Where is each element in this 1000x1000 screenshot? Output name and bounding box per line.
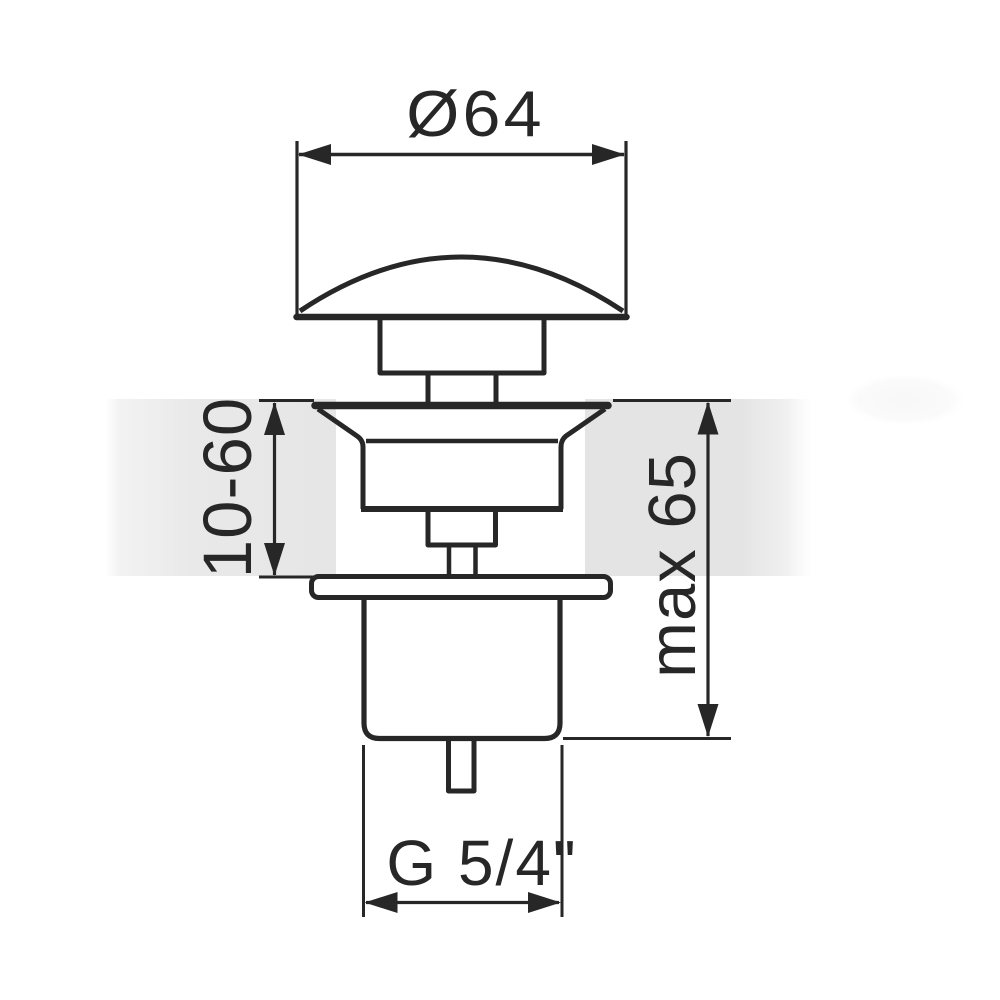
- arrowhead G 5/4 right: [528, 892, 561, 913]
- extension line right of Ø64: [624, 141, 627, 318]
- upper neck right side: [494, 373, 499, 404]
- 10-60 dimension line: [273, 403, 276, 575]
- upper neck left side: [426, 373, 431, 404]
- flange funnel left side: [318, 409, 363, 509]
- cap dome bottom bar: [297, 314, 627, 321]
- G 5/4 dimension line: [366, 901, 559, 904]
- stem right line: [473, 545, 478, 577]
- nut body: [364, 598, 560, 739]
- 10-60 bottom extension line: [259, 576, 313, 579]
- arrowhead G 5/4 left: [365, 892, 398, 913]
- washer plate: [312, 577, 611, 598]
- dimension line Ø64: [299, 153, 624, 156]
- svg-text:Ø64: Ø64: [406, 78, 544, 150]
- arrowhead 10-60 top: [264, 402, 285, 435]
- svg-text:G 5/4": G 5/4": [386, 827, 577, 899]
- flange bottom line: [361, 506, 563, 512]
- dimension label G 5/4": [386, 827, 577, 899]
- 10-60 top extension line: [259, 399, 314, 402]
- svg-text:max 65: max 65: [635, 452, 710, 678]
- extension line left of Ø64: [295, 141, 298, 318]
- cap dome arc: [300, 257, 623, 311]
- arrowhead Ø64 left: [298, 144, 331, 165]
- flange funnel right side: [561, 409, 605, 509]
- G 5/4 left extension line: [362, 745, 365, 917]
- max 65 dimension line: [706, 403, 709, 736]
- flange top bar: [315, 402, 608, 410]
- arrowhead max 65 top: [698, 402, 719, 435]
- max 65 bottom extension line: [563, 737, 731, 740]
- dimension label Ø64: [406, 78, 544, 150]
- cap stem box: [380, 318, 544, 373]
- arrowhead 10-60 bottom: [264, 543, 285, 576]
- dimension label 10-60 (rotated): [189, 397, 266, 578]
- arrowhead Ø64 right: [592, 144, 625, 165]
- stem left line: [447, 545, 452, 577]
- svg-text:10-60: 10-60: [189, 397, 266, 578]
- dimension label max 65 (rotated): [635, 452, 710, 678]
- arrowhead max 65 bottom: [698, 704, 719, 737]
- lower neck box: [428, 509, 496, 545]
- tail stem: [449, 741, 475, 791]
- flange inner top line: [366, 439, 558, 444]
- countertop hole (white gap around drain body): [336, 398, 585, 577]
- G 5/4 right extension line: [561, 745, 564, 917]
- countertop cross-section band: [105, 399, 812, 576]
- max 65 top extension line: [613, 399, 731, 402]
- faint watermark blob: [845, 374, 965, 426]
